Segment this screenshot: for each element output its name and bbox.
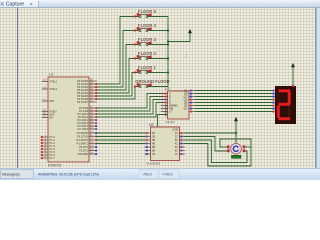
svg-text:7B: 7B	[152, 152, 155, 156]
svg-text:5B: 5B	[152, 145, 155, 149]
wire U1 P3.2 to U2 IN3	[97, 139, 146, 141]
wire U3 QG to display g	[196, 108, 273, 110]
body	[231, 143, 242, 154]
svg-text:P0.7/AD7: P0.7/AD7	[77, 100, 88, 104]
pushbutton FLOOR1	[134, 69, 152, 74]
svg-text:2B: 2B	[152, 135, 155, 139]
power terminal VCC (display)	[291, 63, 295, 67]
sheet border right	[315, 8, 318, 169]
U1 pins 1-8 P1.0-P1.7	[41, 134, 56, 160]
svg-text:P1.7: P1.7	[50, 156, 56, 160]
U1 pins 21-28 P2.0-P2.7 right	[78, 105, 98, 131]
wire U3 RBI down to U2	[158, 115, 165, 128]
svg-text:QG: QG	[184, 107, 188, 111]
wire U3 pin8 to display dp	[196, 111, 273, 113]
wire U2 3C to motor right lower terminal	[185, 140, 248, 163]
svg-text:FLOOR 3: FLOOR 3	[138, 37, 157, 42]
right window edge strip	[317, 8, 320, 169]
power terminal VCC (buttons)	[188, 29, 192, 33]
svg-text:P3.5/T1: P3.5/T1	[79, 149, 89, 153]
display pin squares	[273, 90, 275, 113]
pushbutton GROUND FLOOR	[134, 83, 152, 88]
segment a	[279, 89, 291, 92]
svg-text:74LS47: 74LS47	[166, 120, 176, 124]
display common pin square	[292, 85, 294, 87]
U1 pin 18 XTAL2	[42, 86, 58, 91]
svg-text:P3.0/RXD: P3.0/RXD	[77, 131, 88, 135]
svg-text:4B: 4B	[152, 142, 155, 146]
base	[232, 155, 242, 158]
U2 right pins	[175, 131, 185, 156]
wire U3 QD to display d	[196, 99, 273, 101]
svg-text:COM: COM	[172, 128, 178, 132]
svg-text:-700.0: -700.0	[142, 173, 152, 177]
wire U2 COM to VCC junction	[185, 132, 237, 134]
wire FLOOR1 left to U1 P0.5	[97, 73, 140, 97]
svg-text:FLOOR 1: FLOOR 1	[138, 65, 157, 70]
wire display common to VCC	[292, 67, 294, 86]
svg-text:GROUND FLOOR: GROUND FLOOR	[135, 79, 169, 84]
wire common right drop	[250, 139, 252, 166]
svg-text:P3.1/TXD: P3.1/TXD	[77, 135, 88, 139]
junction node bus branch	[167, 41, 169, 43]
wire VCC bus branch to power terminal	[168, 33, 190, 42]
wire FLOOR3 left to U1 P0.3	[97, 45, 140, 91]
svg-text:+700.0: +700.0	[162, 173, 173, 177]
wire VCC vertical bus	[167, 17, 169, 87]
svg-text:ANIMATING: 00:01:56 (CPU load: ANIMATING: 00:01:56 (CPU load 12%)	[38, 173, 99, 177]
wire FLOOR4 right to VCC bus	[148, 30, 168, 32]
U1 pins 39-32 P0.0-P0.7 right	[77, 78, 97, 104]
svg-text:U3: U3	[165, 87, 170, 91]
svg-text:2C: 2C	[175, 135, 178, 139]
microcontroller U1 body	[48, 73, 89, 168]
status bar	[0, 168, 320, 180]
stepper motor M1	[227, 143, 245, 158]
wire GROUND FLOOR left to U1 P0.6	[97, 87, 140, 100]
wire U3 QC to display c	[196, 96, 273, 98]
power terminal VCC (motor)	[234, 117, 238, 121]
wire GROUND FLOOR right to VCC bus	[148, 86, 168, 88]
junction node bus F3	[167, 44, 169, 46]
schematic canvas background	[0, 8, 320, 169]
U1 pin 31 EA	[42, 115, 53, 120]
seven segment display	[273, 86, 296, 124]
svg-text:ic Capture: ic Capture	[1, 2, 25, 8]
svg-text:P3.3/INT1: P3.3/INT1	[77, 142, 89, 146]
svg-text:4C: 4C	[175, 142, 178, 146]
svg-text:1C: 1C	[175, 131, 178, 135]
svg-text:P3.2/INT0: P3.2/INT0	[77, 138, 89, 142]
svg-text:U1: U1	[49, 73, 54, 77]
wire U1 P2.2 to U3 pin C	[97, 100, 165, 115]
svg-text:FLOOR 5: FLOOR 5	[138, 9, 157, 14]
wire FLOOR3 right to VCC bus	[148, 44, 168, 46]
svg-text:XTAL2: XTAL2	[50, 87, 58, 91]
svg-text:×: ×	[30, 2, 33, 8]
rotor	[233, 146, 237, 151]
tab bar	[0, 0, 320, 8]
svg-text:LT: LT	[169, 110, 172, 114]
wire right terminal top link	[246, 146, 252, 148]
pushbutton FLOOR4	[134, 27, 152, 32]
svg-text:3B: 3B	[152, 138, 155, 142]
decoder U3 body	[165, 87, 189, 124]
wire U3 QF to display f	[196, 105, 273, 107]
U1 pin 19 XTAL1	[42, 79, 58, 84]
svg-text:P2.7/A15: P2.7/A15	[78, 127, 89, 131]
wire U1 P2.0 to U3 pin A	[97, 94, 165, 109]
wire FLOOR5 right to VCC bus	[148, 16, 168, 18]
U1 pin 30 ALE	[42, 112, 55, 117]
segment f unlit	[277, 92, 280, 103]
pushbutton FLOOR2	[134, 55, 152, 60]
U1 pin 29 PSEN	[42, 109, 57, 114]
wire U1 P3.0 to U2 IN1	[97, 132, 146, 134]
svg-text:6C: 6C	[175, 149, 178, 153]
svg-text:6B: 6B	[152, 149, 155, 153]
junction node bus F1	[167, 72, 169, 74]
wire FLOOR4 left to U1 P0.2	[97, 31, 140, 88]
junction node bus F4	[167, 30, 169, 32]
left terminal pins	[227, 145, 230, 148]
segment e	[277, 106, 280, 118]
U1 pins 10-17 P3.0-P3.7 right	[77, 130, 98, 156]
wire common left drop	[220, 139, 227, 147]
segment b	[288, 92, 291, 103]
svg-text:U2: U2	[149, 123, 154, 127]
wire VCC common box top	[220, 138, 251, 140]
wire U1 P3.1 to U2 IN2	[97, 136, 146, 138]
svg-text:3C: 3C	[175, 138, 178, 142]
svg-text:FLOOR 2: FLOOR 2	[138, 51, 157, 56]
wire U3 QB to display b	[196, 93, 273, 95]
svg-text:7C: 7C	[175, 152, 178, 156]
junction node U2 COM / VCC	[235, 132, 237, 134]
U3 left pins	[161, 92, 178, 116]
U1 pin 9 RST	[42, 98, 55, 103]
U2 left pins	[145, 131, 155, 156]
wire U1 P2.3 to U3 pin D	[97, 103, 165, 118]
svg-text:FLOOR 4: FLOOR 4	[138, 23, 157, 28]
segment d	[278, 117, 290, 120]
sheet border left	[16, 8, 19, 169]
wire U1 P3.3 to U2 IN4	[97, 143, 146, 145]
svg-text:RST: RST	[50, 99, 56, 103]
driver U2 body	[147, 123, 180, 165]
wire VCC to motor top	[235, 121, 237, 144]
wire U3 QE to display e	[196, 102, 273, 104]
wire FLOOR1 right to VCC bus	[148, 72, 168, 74]
U3 right pins	[184, 89, 196, 113]
junction node bus F2	[167, 58, 169, 60]
svg-text:P3.6/WR: P3.6/WR	[78, 152, 88, 156]
svg-text:5C: 5C	[175, 145, 178, 149]
svg-text:EA: EA	[50, 116, 54, 120]
wire U2 4C bottom loop	[185, 144, 252, 167]
svg-text:XTAL1: XTAL1	[50, 80, 58, 84]
segment g	[278, 103, 290, 106]
right terminal pins	[243, 145, 246, 148]
svg-text:1B: 1B	[152, 131, 155, 135]
svg-text:AT89C51: AT89C51	[48, 164, 62, 168]
pushbutton FLOOR5	[134, 13, 152, 18]
wire U1 P2.1 to U3 pin B	[97, 97, 165, 112]
wire FLOOR5 left to U1 P0.1	[97, 17, 140, 85]
wire FLOOR2 right to VCC bus	[148, 58, 168, 60]
wire FLOOR2 left to U1 P0.4	[97, 59, 140, 94]
svg-text:P3.4/T0: P3.4/T0	[79, 145, 89, 149]
svg-text:Message(s): Message(s)	[2, 173, 20, 177]
pushbutton FLOOR3	[134, 41, 152, 46]
segment c unlit	[288, 106, 291, 118]
svg-text:ULN2003A: ULN2003A	[147, 162, 161, 166]
wire U3 QA to display a	[196, 90, 273, 92]
wire U2 2C to motor left lower terminal	[185, 137, 227, 152]
